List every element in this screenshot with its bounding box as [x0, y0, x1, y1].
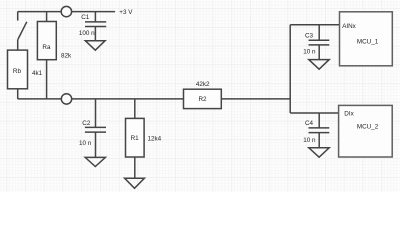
- ground (C3): [309, 60, 329, 70]
- svg-text:C3: C3: [305, 32, 314, 39]
- resistor R2: [184, 89, 222, 108]
- ground (C2): [85, 157, 105, 166]
- wire: stub from rail to switch top contact: [17, 12, 19, 21]
- svg-text:100 n: 100 n: [79, 30, 95, 37]
- svg-text:C4: C4: [305, 120, 314, 127]
- wire: rail to Ra: [46, 12, 48, 22]
- svg-text:82k: 82k: [61, 53, 72, 60]
- ground (C1): [85, 41, 105, 51]
- svg-text:Rb: Rb: [13, 68, 22, 75]
- resistor R1: [126, 118, 145, 157]
- terminal: bottom connector: [61, 94, 71, 104]
- capacitor C1: [85, 12, 106, 41]
- capacitor C3: [309, 25, 330, 59]
- wire: bus to R1: [134, 99, 136, 119]
- svg-text:42k2: 42k2: [196, 81, 210, 88]
- wire: DIx pin wire: [290, 112, 338, 114]
- capacitor C4: [309, 113, 330, 147]
- switch (open): [18, 22, 27, 40]
- svg-text:R2: R2: [199, 96, 208, 103]
- svg-text:10 n: 10 n: [303, 137, 316, 144]
- svg-text:+3 V: +3 V: [119, 9, 133, 16]
- ground (C4): [309, 148, 329, 157]
- svg-text:DIx: DIx: [344, 111, 354, 118]
- svg-text:10 n: 10 n: [79, 140, 92, 147]
- svg-text:MCU_1: MCU_1: [357, 38, 379, 45]
- svg-text:4k1: 4k1: [32, 70, 43, 77]
- MCU_2 box: [339, 105, 393, 157]
- wire: bottom bus left segment: [18, 98, 184, 100]
- svg-text:C1: C1: [81, 14, 90, 21]
- resistor Rb: [8, 50, 28, 89]
- svg-text:Ra: Ra: [42, 44, 51, 51]
- wire: Rb to bottom bus: [17, 89, 19, 99]
- wire: AINx pin wire: [290, 24, 339, 26]
- ground (R1): [125, 178, 145, 188]
- wire: trunk vertical: [289, 25, 291, 113]
- terminal: top connector: [61, 6, 71, 16]
- svg-text:AINx: AINx: [342, 23, 356, 30]
- svg-text:10 n: 10 n: [303, 49, 316, 56]
- wire: +3V top rail: [18, 11, 115, 13]
- MCU_1 box: [340, 12, 393, 66]
- resistor Ra: [37, 22, 56, 60]
- wire: bottom bus right segment (R2 to trunk): [221, 98, 290, 100]
- wire: Ra to bottom bus: [46, 60, 48, 99]
- svg-text:C2: C2: [82, 120, 91, 127]
- svg-text:12k4: 12k4: [148, 135, 162, 142]
- capacitor C2: [85, 99, 106, 157]
- svg-text:R1: R1: [131, 135, 140, 142]
- svg-text:MCU_2: MCU_2: [357, 123, 379, 130]
- wire: R1 to ground: [134, 157, 136, 178]
- wire: switch bottom contact to Rb: [17, 39, 19, 50]
